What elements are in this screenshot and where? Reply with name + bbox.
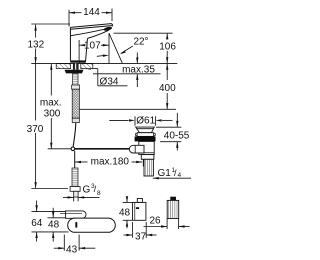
svg-text:G: G bbox=[83, 185, 91, 196]
svg-text:107: 107 bbox=[84, 40, 101, 51]
vertical reference line from spout tip bbox=[108, 33, 110, 63]
svg-text:26: 26 bbox=[149, 216, 161, 227]
drain body bbox=[139, 141, 154, 154]
dimension max.180 line bbox=[75, 157, 143, 167]
label G1 1/4 leader bbox=[153, 177, 191, 179]
dimension 43 lines bbox=[54, 235, 96, 251]
drain tailpiece threaded bbox=[144, 159, 153, 176]
threaded rod bbox=[73, 73, 78, 85]
dimension 48 bottom-left lines bbox=[48, 208, 68, 242]
label G3/8 leader lines bbox=[63, 197, 99, 201]
G3/8 end stub bbox=[74, 191, 78, 197]
faucet base plinth bbox=[70, 60, 86, 62]
hose end fitting bbox=[72, 118, 79, 122]
dimension 64 lines bbox=[32, 201, 67, 242]
dimension 144 lines bbox=[69, 9, 112, 27]
extension line bottom of top view bbox=[32, 231, 69, 233]
svg-text:370: 370 bbox=[27, 124, 44, 135]
cable from hose to junction bbox=[73, 123, 76, 147]
faucet body front view bbox=[70, 24, 112, 61]
extension line 370 bottom bbox=[31, 188, 68, 190]
arrowheads bbox=[34, 12, 184, 250]
svg-text:132: 132 bbox=[27, 39, 44, 50]
svg-text:48: 48 bbox=[119, 207, 131, 218]
drain collar bbox=[137, 133, 154, 137]
svg-text:400: 400 bbox=[159, 83, 176, 94]
mounting nut bbox=[65, 70, 84, 74]
svg-text:43: 43 bbox=[66, 244, 78, 255]
dimension 37 lines bbox=[124, 222, 157, 238]
22 degree slant line bbox=[109, 33, 122, 63]
G3/8 nut bbox=[70, 187, 80, 192]
battery bbox=[167, 200, 179, 218]
dimension 106/400 vertical line bbox=[166, 33, 168, 109]
drain dome bbox=[136, 127, 155, 133]
drain tailpiece step bbox=[141, 155, 154, 160]
svg-text:Ø61: Ø61 bbox=[136, 115, 155, 126]
spout aerator dark tip bbox=[103, 26, 112, 31]
svg-text:max.180: max.180 bbox=[91, 157, 130, 168]
22 degree leader line bbox=[121, 46, 133, 53]
pipe below junction bbox=[74, 151, 76, 168]
svg-text:144: 144 bbox=[83, 7, 100, 18]
svg-text:48: 48 bbox=[48, 219, 60, 230]
svg-text:37: 37 bbox=[135, 232, 147, 243]
svg-text:4: 4 bbox=[178, 172, 182, 179]
svg-text:G1: G1 bbox=[158, 168, 172, 179]
label G3/8 bbox=[83, 183, 102, 197]
svg-text:max.35: max.35 bbox=[122, 65, 155, 76]
label diameter34 leader bbox=[85, 69, 128, 86]
extension line deck bottom (max.35) bbox=[93, 73, 161, 75]
svg-text:106: 106 bbox=[159, 42, 176, 53]
dimension diameter61 lines bbox=[109, 116, 172, 126]
drain side outlet bbox=[129, 145, 144, 153]
top view head bbox=[66, 211, 86, 218]
extension line spout tip to right bbox=[114, 32, 173, 34]
faucet shank through deck bbox=[73, 63, 79, 69]
junction cable horizontal line bbox=[48, 148, 130, 150]
top view sensor slot bbox=[75, 222, 77, 228]
drain flange black band bbox=[135, 136, 156, 141]
dimension 48 bottom-right lines bbox=[123, 197, 133, 229]
control box bbox=[133, 202, 146, 220]
braided hose bbox=[72, 89, 79, 118]
dimension 107 lines bbox=[79, 40, 109, 63]
svg-text:40-55: 40-55 bbox=[164, 131, 190, 142]
label G1 1/4 bbox=[158, 167, 182, 179]
extension line 400 bottom bbox=[80, 108, 176, 110]
svg-text:max.: max. bbox=[40, 98, 62, 109]
deck cross-section left bbox=[56, 64, 93, 69]
hose connector bbox=[72, 85, 80, 89]
svg-text:64: 64 bbox=[31, 218, 43, 229]
junction node bbox=[71, 147, 75, 151]
dimension 40-55 lines bbox=[156, 113, 181, 151]
extension line spout top level bbox=[31, 23, 70, 25]
dimension max.300 vertical line bbox=[50, 64, 52, 149]
dimension 132/370 vertical line bbox=[35, 25, 37, 189]
G3/8 threaded stub bbox=[72, 168, 78, 187]
extension line deck top bbox=[31, 62, 177, 64]
svg-text:300: 300 bbox=[44, 109, 61, 120]
svg-text:22°: 22° bbox=[133, 37, 148, 48]
dimension 26 lines bbox=[144, 219, 190, 229]
svg-text:8: 8 bbox=[97, 190, 101, 197]
svg-text:Ø34: Ø34 bbox=[100, 76, 119, 87]
top view capsule body bbox=[68, 218, 116, 232]
